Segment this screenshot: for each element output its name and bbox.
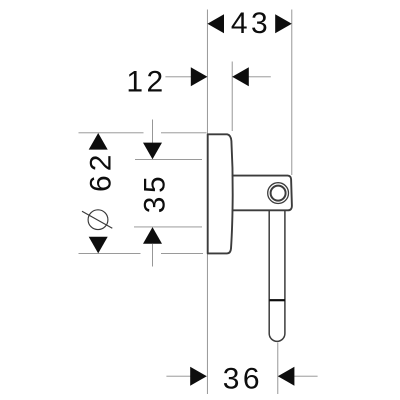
knob inner circle	[271, 186, 286, 201]
svg-text:35: 35	[138, 173, 171, 213]
wire: wall extension line lower (to dim 36)	[206, 254, 208, 395]
wire: dim 35 vertical leader above	[152, 120, 154, 144]
wire: dim 12 right tail	[233, 76, 271, 78]
wire: dim 62 bottom extension line	[79, 253, 141, 255]
wire: dim 35 bottom extension line	[134, 226, 202, 228]
svg-text:62: 62	[84, 151, 117, 192]
wire: wall extension line upper (x=207.4, dim 43 left)	[206, 10, 208, 134]
dimension arrow 62 bottom	[89, 237, 108, 254]
wire: dim 12 left tail	[165, 76, 206, 78]
dimension arrow 43 right	[275, 14, 292, 33]
rod right edge	[284, 211, 286, 334]
wire: dim 12 right extension line (plate face)	[231, 62, 233, 132]
arm (holder bracket)	[232, 176, 292, 211]
knob outer circle	[268, 183, 289, 204]
dimension arrow 12 right	[232, 67, 249, 86]
wire: dim 43 right extension line (arm end)	[291, 10, 293, 176]
wire: dim 62 top extension line	[79, 132, 144, 134]
wire: rod centerline extension (dim 36 right)	[277, 343, 279, 395]
dimension arrow 35 bottom	[143, 227, 162, 244]
svg-text:43: 43	[231, 7, 271, 40]
dimension arrow 36 left	[190, 367, 207, 386]
wire: dim 36 left tail	[166, 375, 206, 377]
dimension arrow 43 left	[207, 14, 224, 33]
dimension arrow 12 left	[191, 67, 208, 86]
svg-text:36: 36	[223, 363, 263, 396]
diameter symbol	[82, 210, 112, 230]
wire: dim 35 top extension line	[135, 158, 202, 160]
wire: dim 36 right tail	[278, 375, 317, 377]
rod rounded tip	[269, 334, 285, 342]
wire: dim 35 vertical leader below	[152, 244, 154, 267]
rod left edge	[268, 211, 270, 334]
dimension arrow 36 right	[278, 367, 295, 386]
wall plate (side view)	[208, 134, 233, 253]
svg-text:12: 12	[126, 66, 166, 99]
dimension arrow 62 top	[89, 133, 108, 150]
dimension arrow 35 top	[143, 143, 162, 160]
rod joint line	[269, 299, 285, 301]
